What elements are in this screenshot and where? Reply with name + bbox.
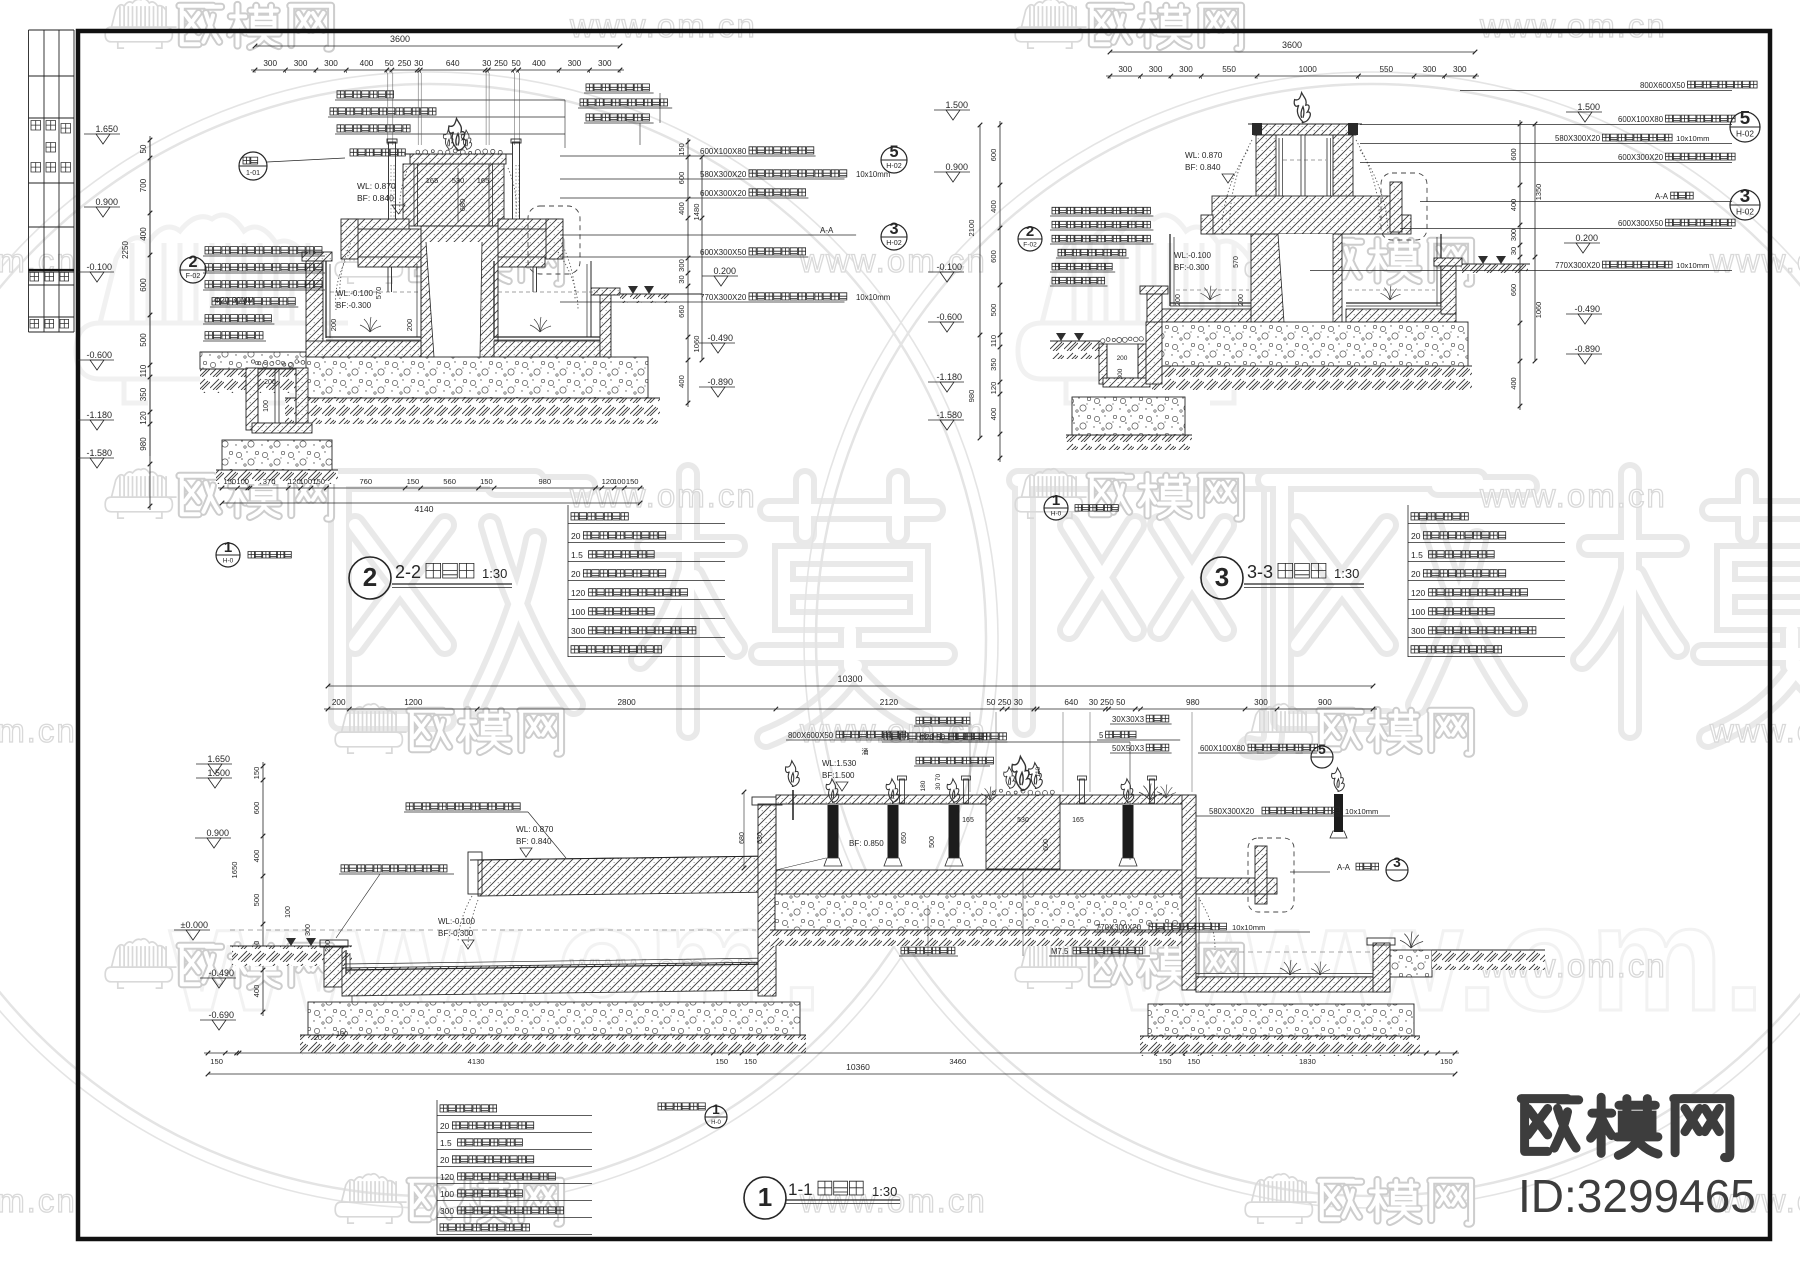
svg-text:350: 350 <box>139 387 148 401</box>
svg-text:5: 5 <box>1740 107 1750 128</box>
svg-text:120: 120 <box>139 411 148 425</box>
svg-text:550: 550 <box>1222 65 1236 74</box>
svg-text:100: 100 <box>236 477 249 486</box>
svg-text:3600: 3600 <box>1282 40 1302 50</box>
svg-text:250: 250 <box>494 59 508 68</box>
svg-text:200: 200 <box>1238 294 1245 306</box>
svg-text:WL:-0.100: WL:-0.100 <box>1174 251 1211 260</box>
svg-text:H-0: H-0 <box>223 557 234 564</box>
svg-text:100: 100 <box>263 400 270 412</box>
svg-text:120: 120 <box>989 382 998 395</box>
svg-text:300: 300 <box>1254 698 1268 707</box>
svg-text:200: 200 <box>1117 355 1128 362</box>
svg-text:300: 300 <box>1453 65 1467 74</box>
svg-text:WL:1.530: WL:1.530 <box>822 759 857 768</box>
svg-text:3-3: 3-3 <box>1247 562 1273 582</box>
svg-text:770X300X20: 770X300X20 <box>700 293 747 302</box>
svg-text:-0.100: -0.100 <box>936 262 962 272</box>
svg-text:1000: 1000 <box>1299 65 1318 74</box>
svg-text:1.5: 1.5 <box>1411 550 1423 560</box>
svg-text:980: 980 <box>967 390 976 403</box>
svg-text:100: 100 <box>440 1189 454 1199</box>
svg-text:www.om.cn: www.om.cn <box>1709 242 1800 279</box>
svg-text:-0.490: -0.490 <box>1574 304 1600 314</box>
svg-text:300: 300 <box>677 259 686 272</box>
svg-text:600X100X80: 600X100X80 <box>1618 115 1664 124</box>
svg-text:660: 660 <box>677 305 686 318</box>
svg-text:900: 900 <box>1318 698 1332 707</box>
svg-text:30X30X3: 30X30X3 <box>1112 715 1144 724</box>
svg-text:300: 300 <box>294 59 308 68</box>
svg-text:100: 100 <box>1411 607 1425 617</box>
svg-text:1.5: 1.5 <box>571 550 583 560</box>
svg-text:20: 20 <box>440 1121 450 1131</box>
svg-text:-1.180: -1.180 <box>936 372 962 382</box>
svg-text:400: 400 <box>1509 199 1518 211</box>
svg-text:Φ20-50: Φ20-50 <box>919 733 946 742</box>
svg-text:150: 150 <box>223 477 236 486</box>
svg-text:F-02: F-02 <box>186 272 201 280</box>
svg-text:980: 980 <box>139 437 148 451</box>
svg-text:1.650: 1.650 <box>207 754 230 764</box>
svg-text:3460: 3460 <box>949 1057 966 1066</box>
svg-text:BF:-0.300: BF:-0.300 <box>438 929 474 938</box>
svg-text:150: 150 <box>1440 1057 1453 1066</box>
svg-text:150: 150 <box>407 477 420 486</box>
svg-text:5: 5 <box>1318 742 1326 757</box>
svg-text:530: 530 <box>1017 817 1029 824</box>
svg-text:1: 1 <box>758 1182 772 1212</box>
svg-text:300: 300 <box>568 59 582 68</box>
svg-text:600: 600 <box>1043 839 1050 851</box>
svg-text:10x10mm: 10x10mm <box>856 293 890 302</box>
svg-text:300: 300 <box>1149 65 1163 74</box>
svg-text:200: 200 <box>329 319 338 332</box>
svg-text:400: 400 <box>677 375 686 388</box>
svg-text:2120: 2120 <box>880 698 899 707</box>
svg-text:50X50X3: 50X50X3 <box>1112 744 1144 753</box>
svg-text:680: 680 <box>458 199 467 212</box>
svg-text:980: 980 <box>1186 698 1200 707</box>
svg-text:600X100X80: 600X100X80 <box>700 147 747 156</box>
svg-text:4140: 4140 <box>415 504 434 514</box>
svg-text:涌: 涌 <box>862 747 869 756</box>
svg-text:400: 400 <box>360 59 374 68</box>
svg-text:770X300X20: 770X300X20 <box>1555 261 1601 270</box>
svg-text:50: 50 <box>385 59 395 68</box>
svg-text:165: 165 <box>1072 817 1084 824</box>
svg-text:-1.580: -1.580 <box>936 410 962 420</box>
svg-text:1: 1 <box>224 539 232 556</box>
svg-text:200: 200 <box>264 379 276 386</box>
svg-text:50 250 30: 50 250 30 <box>986 698 1023 707</box>
svg-text:600X300X20: 600X300X20 <box>700 189 747 198</box>
svg-text:600X300X20: 600X300X20 <box>1618 153 1664 162</box>
svg-text:H-02: H-02 <box>1736 129 1754 138</box>
svg-text:800X600X50: 800X600X50 <box>1640 81 1686 90</box>
svg-text:300: 300 <box>440 1206 454 1216</box>
svg-text:300: 300 <box>305 924 312 936</box>
svg-text:600X300X50: 600X300X50 <box>1618 219 1664 228</box>
svg-text:0.200: 0.200 <box>713 266 736 276</box>
svg-text:550: 550 <box>1379 65 1393 74</box>
svg-text:0.900: 0.900 <box>206 828 229 838</box>
svg-text:H-02: H-02 <box>886 239 902 247</box>
svg-text:100: 100 <box>285 906 292 918</box>
svg-text:570: 570 <box>1233 256 1240 268</box>
svg-text:www.om.cn: www.om.cn <box>569 477 757 514</box>
svg-text:200: 200 <box>332 698 346 707</box>
svg-text:600X100X80: 600X100X80 <box>1200 744 1246 753</box>
svg-text:1480: 1480 <box>692 204 701 221</box>
svg-text:370: 370 <box>263 477 276 486</box>
svg-text:-0.690: -0.690 <box>208 1010 234 1020</box>
svg-text:-0.600: -0.600 <box>86 350 112 360</box>
svg-text:BF:-0.300: BF:-0.300 <box>1174 263 1210 272</box>
svg-text:120: 120 <box>1411 588 1425 598</box>
svg-text:3: 3 <box>1393 855 1401 870</box>
svg-text:300: 300 <box>1117 368 1124 379</box>
svg-text:300: 300 <box>598 59 612 68</box>
svg-text:1-1: 1-1 <box>788 1180 813 1199</box>
svg-text:700: 700 <box>139 178 148 192</box>
svg-text:www.om.cn: www.om.cn <box>569 7 757 44</box>
svg-text:1-01: 1-01 <box>246 170 260 177</box>
svg-text:400: 400 <box>989 200 998 213</box>
svg-text:580X300X20: 580X300X20 <box>1209 807 1255 816</box>
svg-text:A-A: A-A <box>1337 863 1351 872</box>
svg-text:10x10mm: 10x10mm <box>856 170 890 179</box>
svg-text:600: 600 <box>1509 148 1518 160</box>
svg-text:1:30: 1:30 <box>1334 566 1359 581</box>
svg-text:100: 100 <box>299 477 312 486</box>
svg-text:2-2: 2-2 <box>395 562 421 582</box>
svg-text:3: 3 <box>1740 185 1750 206</box>
svg-text:400: 400 <box>139 227 148 241</box>
svg-text:150: 150 <box>210 1057 223 1066</box>
svg-text:10300: 10300 <box>837 674 862 684</box>
svg-text:100: 100 <box>336 1031 348 1038</box>
svg-text:1: 1 <box>712 1102 720 1117</box>
svg-text:20: 20 <box>314 1035 322 1042</box>
svg-text:200: 200 <box>405 319 414 332</box>
svg-text:WL: 0.870: WL: 0.870 <box>357 181 396 191</box>
svg-text:570: 570 <box>374 287 383 300</box>
svg-text:1650: 1650 <box>230 862 239 879</box>
svg-text:500: 500 <box>929 836 936 848</box>
svg-text:150: 150 <box>480 477 493 486</box>
svg-text:1350: 1350 <box>1534 184 1543 200</box>
svg-text:30 70: 30 70 <box>935 773 942 790</box>
svg-text:30: 30 <box>482 59 492 68</box>
svg-text:150: 150 <box>252 767 261 780</box>
svg-text:4130: 4130 <box>468 1057 485 1066</box>
svg-text:630: 630 <box>757 832 764 844</box>
svg-text:20: 20 <box>1411 531 1421 541</box>
svg-text:180: 180 <box>920 780 927 791</box>
svg-text:www.om.cn: www.om.cn <box>1479 477 1667 514</box>
svg-text:0.900: 0.900 <box>95 197 118 207</box>
svg-text:300: 300 <box>1118 65 1132 74</box>
svg-text:A-A: A-A <box>1655 192 1669 201</box>
svg-text:BF: 0.840: BF: 0.840 <box>1185 163 1221 172</box>
svg-text:A-A: A-A <box>820 226 834 235</box>
svg-text:2: 2 <box>188 253 197 271</box>
svg-text:5: 5 <box>889 143 898 161</box>
svg-text:600: 600 <box>677 172 686 185</box>
svg-text:2100: 2100 <box>967 220 976 237</box>
svg-text:300: 300 <box>324 59 338 68</box>
svg-text:-0.890: -0.890 <box>1574 344 1600 354</box>
svg-text:120: 120 <box>571 588 585 598</box>
svg-text:0.200: 0.200 <box>1575 233 1598 243</box>
svg-text:680: 680 <box>739 832 746 844</box>
svg-text:150: 150 <box>715 1057 728 1066</box>
svg-text:640: 640 <box>446 59 460 68</box>
svg-text:500: 500 <box>252 894 261 907</box>
svg-text:20: 20 <box>440 1155 450 1165</box>
svg-text:2: 2 <box>1026 223 1034 240</box>
svg-text:H-02: H-02 <box>886 162 902 170</box>
svg-text:150: 150 <box>1187 1057 1200 1066</box>
svg-text:1.500: 1.500 <box>1577 102 1600 112</box>
svg-text:600: 600 <box>989 250 998 263</box>
svg-text:BF: 0.840: BF: 0.840 <box>357 193 394 203</box>
svg-text:H-02: H-02 <box>1736 207 1754 216</box>
svg-text:300: 300 <box>263 59 277 68</box>
svg-text:110: 110 <box>139 364 148 377</box>
svg-text:-0.600: -0.600 <box>936 312 962 322</box>
svg-text:H-0: H-0 <box>1051 510 1062 517</box>
svg-text:650: 650 <box>901 832 908 844</box>
svg-text:±0.000: ±0.000 <box>181 920 208 930</box>
svg-text:1:30: 1:30 <box>872 1184 897 1199</box>
svg-text:30: 30 <box>1509 247 1518 255</box>
svg-text:5: 5 <box>1099 731 1104 740</box>
svg-text:980: 980 <box>538 477 551 486</box>
svg-text:600: 600 <box>252 802 261 815</box>
svg-text:BF: 0.840: BF: 0.840 <box>516 837 552 846</box>
svg-text:1.650: 1.650 <box>95 124 118 134</box>
svg-text:110: 110 <box>989 335 998 347</box>
svg-text:300: 300 <box>1179 65 1193 74</box>
svg-text:1:30: 1:30 <box>482 566 507 581</box>
svg-text:WL: 0.870: WL: 0.870 <box>516 825 554 834</box>
svg-text:660: 660 <box>1509 284 1518 296</box>
svg-text:1.5: 1.5 <box>440 1138 452 1148</box>
svg-text:50: 50 <box>139 144 148 153</box>
svg-text:Φ20-30MM: Φ20-30MM <box>214 296 255 305</box>
svg-text:165: 165 <box>426 176 439 185</box>
svg-text:www.om.cn: www.om.cn <box>1709 712 1800 749</box>
svg-text:BF:1.500: BF:1.500 <box>822 771 855 780</box>
svg-text:20: 20 <box>571 569 581 579</box>
svg-text:10x10mm: 10x10mm <box>1232 923 1265 932</box>
svg-text:110: 110 <box>1035 766 1042 777</box>
svg-text:150: 150 <box>312 477 325 486</box>
svg-text:20: 20 <box>571 531 581 541</box>
svg-text:30 250 50: 30 250 50 <box>1089 698 1126 707</box>
svg-text:500: 500 <box>139 333 148 347</box>
svg-text:-0.490: -0.490 <box>208 968 234 978</box>
svg-text:10x10mm: 10x10mm <box>1676 134 1709 143</box>
svg-text:100: 100 <box>613 477 626 486</box>
svg-text:3600: 3600 <box>390 34 410 44</box>
svg-text:500: 500 <box>989 304 998 317</box>
svg-text:300: 300 <box>1423 65 1437 74</box>
svg-text:1830: 1830 <box>1299 1057 1316 1066</box>
svg-text:F-02: F-02 <box>1023 241 1037 248</box>
svg-text:50: 50 <box>512 59 522 68</box>
svg-text:10360: 10360 <box>846 1062 870 1072</box>
svg-text:600X300X50: 600X300X50 <box>700 248 747 257</box>
svg-text:165: 165 <box>477 176 490 185</box>
svg-text:800X600X50: 800X600X50 <box>788 731 834 740</box>
svg-text:120: 120 <box>440 1172 454 1182</box>
svg-text:3: 3 <box>889 220 898 238</box>
svg-text:H-0: H-0 <box>711 1120 721 1126</box>
svg-text:10x10mm: 10x10mm <box>1676 261 1709 270</box>
svg-text:300: 300 <box>1509 229 1518 241</box>
svg-text:WL: 0.870: WL: 0.870 <box>1185 151 1223 160</box>
svg-text:100: 100 <box>571 607 585 617</box>
svg-text:350: 350 <box>989 358 998 371</box>
svg-text:640: 640 <box>1064 698 1078 707</box>
svg-text:150: 150 <box>677 143 686 156</box>
svg-text:BF: 0.850: BF: 0.850 <box>849 839 884 848</box>
svg-text:-0.490: -0.490 <box>707 333 733 343</box>
svg-text:WL:-0.100: WL:-0.100 <box>438 917 475 926</box>
svg-text:2: 2 <box>363 562 377 592</box>
svg-text:150: 150 <box>626 477 639 486</box>
svg-text:-0.100: -0.100 <box>86 262 112 272</box>
svg-text:WL:-0.100: WL:-0.100 <box>336 289 373 298</box>
svg-text:580X300X20: 580X300X20 <box>1555 134 1601 143</box>
svg-text:300: 300 <box>571 626 585 636</box>
svg-text:www.om.cn: www.om.cn <box>0 1182 77 1219</box>
svg-text:2800: 2800 <box>617 698 636 707</box>
svg-text:1060: 1060 <box>1534 302 1543 318</box>
svg-text:-0.890: -0.890 <box>707 377 733 387</box>
svg-text:400: 400 <box>677 202 686 215</box>
svg-text:600: 600 <box>139 278 148 292</box>
svg-text:1: 1 <box>1052 492 1060 509</box>
svg-text:ID:3299465: ID:3299465 <box>1518 1170 1756 1222</box>
svg-text:250: 250 <box>398 59 412 68</box>
svg-text:400: 400 <box>989 408 998 421</box>
svg-text:20: 20 <box>1411 569 1421 579</box>
svg-text:www.om.cn: www.om.cn <box>0 712 77 749</box>
svg-text:150: 150 <box>1159 1057 1172 1066</box>
svg-text:2250: 2250 <box>121 241 130 259</box>
svg-text:www.om.cn: www.om.cn <box>799 242 987 279</box>
svg-text:600: 600 <box>989 149 998 162</box>
svg-text:200: 200 <box>1175 294 1182 306</box>
svg-text:1060: 1060 <box>692 336 701 353</box>
svg-text:-1.180: -1.180 <box>86 410 112 420</box>
svg-text:M7.5: M7.5 <box>1051 947 1069 956</box>
svg-text:1200: 1200 <box>404 698 423 707</box>
svg-text:400: 400 <box>252 985 261 998</box>
svg-text:BF:-0.300: BF:-0.300 <box>336 301 372 310</box>
svg-text:30: 30 <box>414 59 424 68</box>
svg-text:3: 3 <box>1215 562 1229 592</box>
svg-text:400: 400 <box>252 850 261 863</box>
svg-text:1.500: 1.500 <box>207 768 230 778</box>
svg-text:1.500: 1.500 <box>945 100 968 110</box>
svg-text:-1.580: -1.580 <box>86 448 112 458</box>
svg-text:30: 30 <box>677 275 686 283</box>
svg-text:760: 760 <box>359 477 372 486</box>
svg-text:0.900: 0.900 <box>945 162 968 172</box>
svg-text:400: 400 <box>1509 377 1518 389</box>
svg-text:150: 150 <box>744 1057 757 1066</box>
svg-text:770X300X20: 770X300X20 <box>1096 923 1142 932</box>
svg-text:300: 300 <box>1411 626 1425 636</box>
svg-text:580X300X20: 580X300X20 <box>700 170 747 179</box>
svg-text:165: 165 <box>962 817 974 824</box>
svg-text:www.om.cn: www.om.cn <box>1479 7 1667 44</box>
svg-text:200: 200 <box>325 940 332 952</box>
svg-text:10x10mm: 10x10mm <box>1345 807 1378 816</box>
svg-text:400: 400 <box>532 59 546 68</box>
svg-text:560: 560 <box>443 477 456 486</box>
